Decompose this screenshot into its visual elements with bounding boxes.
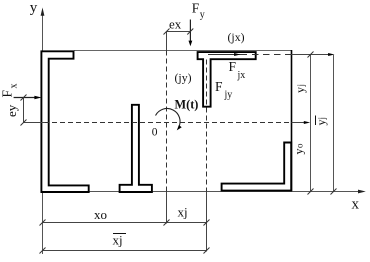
node tick ybarj bottom	[331, 189, 337, 195]
node y-axis arrowhead	[41, 8, 45, 16]
svg-text:ex: ex	[169, 17, 182, 32]
svg-text:y: y	[200, 10, 205, 21]
svg-text:x: x	[9, 84, 20, 89]
wire top edge of section outline	[74, 50, 292, 52]
svg-text:xj: xj	[113, 233, 123, 248]
node tick xj right	[204, 220, 210, 226]
wire yj dimension line right	[310, 55, 312, 192]
svg-text:xo: xo	[94, 207, 107, 222]
wire horizontal centroid dashed line	[44, 122, 292, 124]
svg-text:x: x	[352, 197, 360, 213]
angle profile bottom right	[222, 143, 292, 191]
svg-text:y: y	[293, 87, 307, 93]
svg-text:j: j	[296, 84, 306, 88]
wire jx dashed centerline in top bar	[208, 54, 247, 56]
dimension ey	[23, 98, 25, 123]
wire vertical j dashed line	[206, 60, 208, 192]
node tick yj bottom	[308, 189, 314, 195]
svg-text:0: 0	[152, 127, 158, 139]
wire extension center below axis	[166, 192, 168, 224]
svg-text:(jy): (jy)	[175, 71, 192, 85]
svg-text:y: y	[30, 0, 38, 16]
wire top extension to ybar dimension	[292, 54, 333, 56]
node y-axis line	[42, 10, 44, 254]
svg-text:F: F	[215, 79, 223, 94]
wire right edge of section outline	[291, 50, 293, 192]
node x-axis line	[41, 191, 363, 193]
svg-text:F: F	[192, 1, 200, 16]
node tick xbarj left	[40, 248, 46, 254]
svg-text:F: F	[229, 59, 237, 74]
svg-text:o: o	[295, 143, 305, 148]
node ybarj label	[314, 116, 328, 126]
wire horizontal centroid arrow extension right	[292, 122, 308, 124]
svg-text:ey: ey	[4, 104, 19, 117]
svg-text:jx: jx	[237, 70, 246, 81]
T profile middle	[120, 105, 152, 192]
svg-text:M(t): M(t)	[175, 98, 199, 112]
node tick xo left	[40, 220, 46, 226]
node tick yj top	[308, 52, 314, 58]
svg-text:(jx): (jx)	[228, 30, 245, 44]
dimension ex	[167, 31, 191, 33]
force Fy arrow	[189, 20, 191, 42]
node x-axis arrowhead	[358, 190, 366, 194]
force Fx arrow	[14, 97, 37, 99]
angle profile top right j	[198, 52, 256, 107]
moment M(t) arc	[156, 108, 181, 127]
wire vertical centroid dashed line	[166, 51, 168, 192]
svg-text:j: j	[317, 117, 327, 121]
svg-text:F: F	[0, 90, 15, 98]
svg-text:jy: jy	[224, 90, 233, 101]
wire ybarj dimension line right	[333, 55, 335, 192]
node tick xbarj right	[204, 248, 210, 254]
wire horizontal centroid solid left stub	[24, 122, 46, 124]
svg-text:y: y	[292, 149, 306, 155]
svg-text:xj: xj	[178, 205, 188, 220]
dimension xo xj line	[43, 222, 207, 224]
dimension xbarj line	[43, 250, 207, 252]
channel profile left C	[41, 51, 88, 192]
node tick xo right	[164, 220, 170, 226]
node xbarj label	[113, 233, 127, 248]
wire extension j below axis	[206, 192, 208, 252]
